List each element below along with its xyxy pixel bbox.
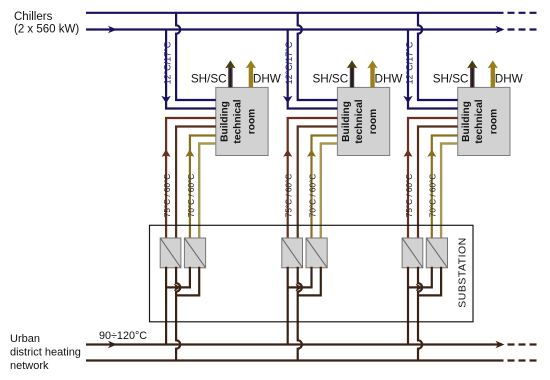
svg-text:technical: technical <box>232 99 243 143</box>
building 1 primary return branch from HX-DHW <box>176 267 199 296</box>
building 1 DHW supply pipe 70C with arrow <box>185 136 215 240</box>
building 3 chilled water supply drop pipe with arrow <box>403 30 458 109</box>
building 2 primary return riser with hops <box>298 267 302 361</box>
svg-text:room: room <box>489 109 500 134</box>
building 2 heat exchanger HX-DHW <box>306 238 327 268</box>
svg-text:70°C / 60°C: 70°C / 60°C <box>429 174 438 217</box>
svg-text:90÷120°C: 90÷120°C <box>99 330 147 342</box>
building 1 DHW recirculation pipe 60C <box>199 144 216 240</box>
building 1 heat exchanger HX-SH <box>160 238 181 268</box>
svg-text:DHW: DHW <box>375 73 403 86</box>
svg-text:75°C / 60°C: 75°C / 60°C <box>405 174 414 217</box>
building 2 DHW recirculation pipe 60C <box>321 144 338 240</box>
svg-text:70°C / 60°C: 70°C / 60°C <box>187 174 196 217</box>
building 2 chilled water supply drop pipe with arrow <box>283 30 338 109</box>
building 3 primary return riser with hops <box>418 267 422 361</box>
building 3 primary supply branch to HX-DHW with arrow <box>408 267 432 291</box>
building 2 DHW rooftop arrow <box>367 60 377 87</box>
urban DH supply main 90-120C <box>86 341 537 349</box>
building 3 technical room box <box>458 87 510 155</box>
svg-text:room: room <box>368 109 379 134</box>
svg-text:12°C/17°C: 12°C/17°C <box>284 41 294 84</box>
svg-text:technical: technical <box>354 99 365 143</box>
building 1 primary return riser with hops <box>176 267 180 361</box>
building 2 heat exchanger HX-SH <box>282 238 303 268</box>
building 3 DHW recirculation pipe 60C <box>441 144 458 240</box>
svg-text:SUBSTATION: SUBSTATION <box>457 237 469 308</box>
svg-text:SH/SC: SH/SC <box>191 73 227 86</box>
svg-text:technical: technical <box>474 99 485 143</box>
svg-text:Chillers: Chillers <box>14 11 53 23</box>
building 2 primary supply riser <box>287 267 289 345</box>
chilled water return main (top line) <box>86 12 537 14</box>
building 3 primary return branch from HX-DHW <box>418 267 441 296</box>
building 1 chilled water return pipe with hop <box>176 13 216 100</box>
svg-text:DHW: DHW <box>253 73 281 86</box>
building 3 SH supply pipe 75C with arrow <box>404 118 458 239</box>
building 3 SH/SC rooftop arrow <box>467 60 477 87</box>
building 3 heat exchanger HX-DHW <box>426 238 447 268</box>
building 3 primary supply riser <box>407 267 409 345</box>
building 1 SH return pipe 60C <box>176 127 216 240</box>
svg-text:network: network <box>10 360 49 372</box>
building 1 SH/SC rooftop arrow <box>225 60 235 87</box>
building 3 DHW rooftop arrow <box>488 60 498 87</box>
svg-text:Urban: Urban <box>10 333 40 345</box>
building 2 chilled water return pipe with hop <box>298 13 338 100</box>
svg-text:Building: Building <box>341 101 352 142</box>
building 1 technical room box <box>216 87 268 155</box>
svg-text:75°C / 60°C: 75°C / 60°C <box>285 174 294 217</box>
svg-text:SH/SC: SH/SC <box>312 73 348 86</box>
substation boundary box <box>150 225 474 321</box>
building 2 primary supply branch to HX-DHW with arrow <box>288 267 312 291</box>
urban district heating network label <box>10 333 81 372</box>
svg-text:district heating: district heating <box>10 347 81 359</box>
building 2 technical room box <box>337 87 389 155</box>
building 3 chilled water return pipe with hop <box>418 13 458 100</box>
svg-text:DHW: DHW <box>495 73 523 86</box>
svg-text:Building: Building <box>219 101 230 142</box>
svg-text:12°C/17°C: 12°C/17°C <box>404 41 414 84</box>
building 2 DHW supply pipe 70C with arrow <box>307 136 337 240</box>
building 1 chilled water supply drop pipe with arrow <box>161 30 216 109</box>
urban DH return main <box>86 359 537 361</box>
chilled water supply main (second line) <box>86 26 537 34</box>
building 3 DHW supply pipe 70C with arrow <box>427 136 457 240</box>
building 3 heat exchanger HX-SH <box>402 238 423 268</box>
building 1 primary supply branch to HX-DHW with arrow <box>166 267 190 291</box>
building 3 SH return pipe 60C <box>418 127 458 240</box>
svg-text:(2 x 560 kW): (2 x 560 kW) <box>14 24 79 36</box>
building 1 primary supply riser <box>165 267 167 345</box>
building 2 SH supply pipe 75C with arrow <box>283 118 337 239</box>
building 2 SH/SC rooftop arrow <box>347 60 357 87</box>
svg-text:70°C / 60°C: 70°C / 60°C <box>308 174 317 217</box>
building 2 SH return pipe 60C <box>298 127 338 240</box>
building 1 SH supply pipe 75C with arrow <box>162 118 216 239</box>
building 1 heat exchanger HX-DHW <box>184 238 205 268</box>
building 1 DHW rooftop arrow <box>246 60 256 87</box>
svg-text:12°C/17°C: 12°C/17°C <box>163 41 173 84</box>
svg-text:75°C / 60°C: 75°C / 60°C <box>163 174 172 217</box>
svg-text:room: room <box>247 109 258 134</box>
svg-text:Building: Building <box>461 101 472 142</box>
svg-text:SH/SC: SH/SC <box>433 73 469 86</box>
building 2 primary return branch from HX-DHW <box>298 267 321 296</box>
